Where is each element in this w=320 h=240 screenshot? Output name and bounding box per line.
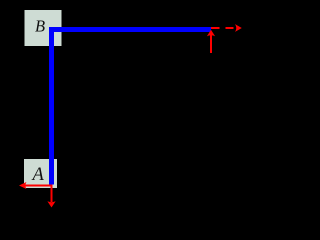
beam vertical segment (blue)	[49, 27, 54, 185]
reaction arrow down at A	[47, 185, 55, 208]
dashed displacement arrow to the right	[211, 24, 242, 32]
beam horizontal segment (blue)	[49, 27, 211, 32]
svg-text:B: B	[35, 17, 45, 36]
force arrow up at right end	[207, 30, 215, 53]
reaction arrow left at A	[19, 182, 53, 189]
svg-text:A: A	[31, 165, 45, 185]
support block A	[24, 159, 57, 188]
support block B	[25, 10, 62, 46]
